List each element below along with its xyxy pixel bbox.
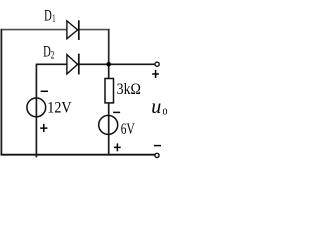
polarity plus of 12V source xyxy=(40,124,47,132)
label D2 xyxy=(43,44,54,62)
voltage source V2 6V (circle) xyxy=(99,115,118,134)
svg-text:12V: 12V xyxy=(47,99,72,116)
node: junction dot at resistor branch xyxy=(106,62,111,67)
wire: vertical drop from D1 wire to junction xyxy=(108,29,110,64)
voltage source V1 12V (circle) xyxy=(27,98,46,117)
polarity plus at output top terminal xyxy=(152,70,159,78)
wire: top horizontal (D1 branch) xyxy=(1,29,110,31)
polarity minus of 6V source xyxy=(113,111,120,113)
wire: D2 horizontal to output + terminal xyxy=(36,63,154,65)
resistor R 3kohm (body) xyxy=(105,79,114,103)
svg-text:1: 1 xyxy=(52,13,55,25)
diode D2 xyxy=(67,54,79,75)
terminal: output + (open circle) xyxy=(155,62,159,66)
wire: bottom horizontal xyxy=(1,154,155,156)
label D1 xyxy=(44,7,55,24)
wire: left vertical side xyxy=(0,29,2,155)
svg-text:6V: 6V xyxy=(121,121,135,138)
svg-text:D: D xyxy=(43,44,51,61)
svg-text:D: D xyxy=(44,7,52,24)
label u_o (output voltage) xyxy=(151,96,167,118)
svg-text:u: u xyxy=(151,96,161,118)
polarity minus of 12V source xyxy=(41,90,48,92)
wire: resistor branch vertical (junction to resistor, through 6V source to bottom) xyxy=(108,64,110,155)
svg-text:2: 2 xyxy=(51,49,55,61)
wire: 12V source branch vertical xyxy=(35,64,37,158)
polarity plus of 6V source xyxy=(114,143,121,151)
diode D1 xyxy=(67,20,79,40)
svg-text:3kΩ: 3kΩ xyxy=(117,81,141,98)
terminal: output - (open circle) xyxy=(155,153,159,157)
polarity minus at output bottom terminal xyxy=(154,145,161,147)
svg-text:o: o xyxy=(163,102,168,117)
